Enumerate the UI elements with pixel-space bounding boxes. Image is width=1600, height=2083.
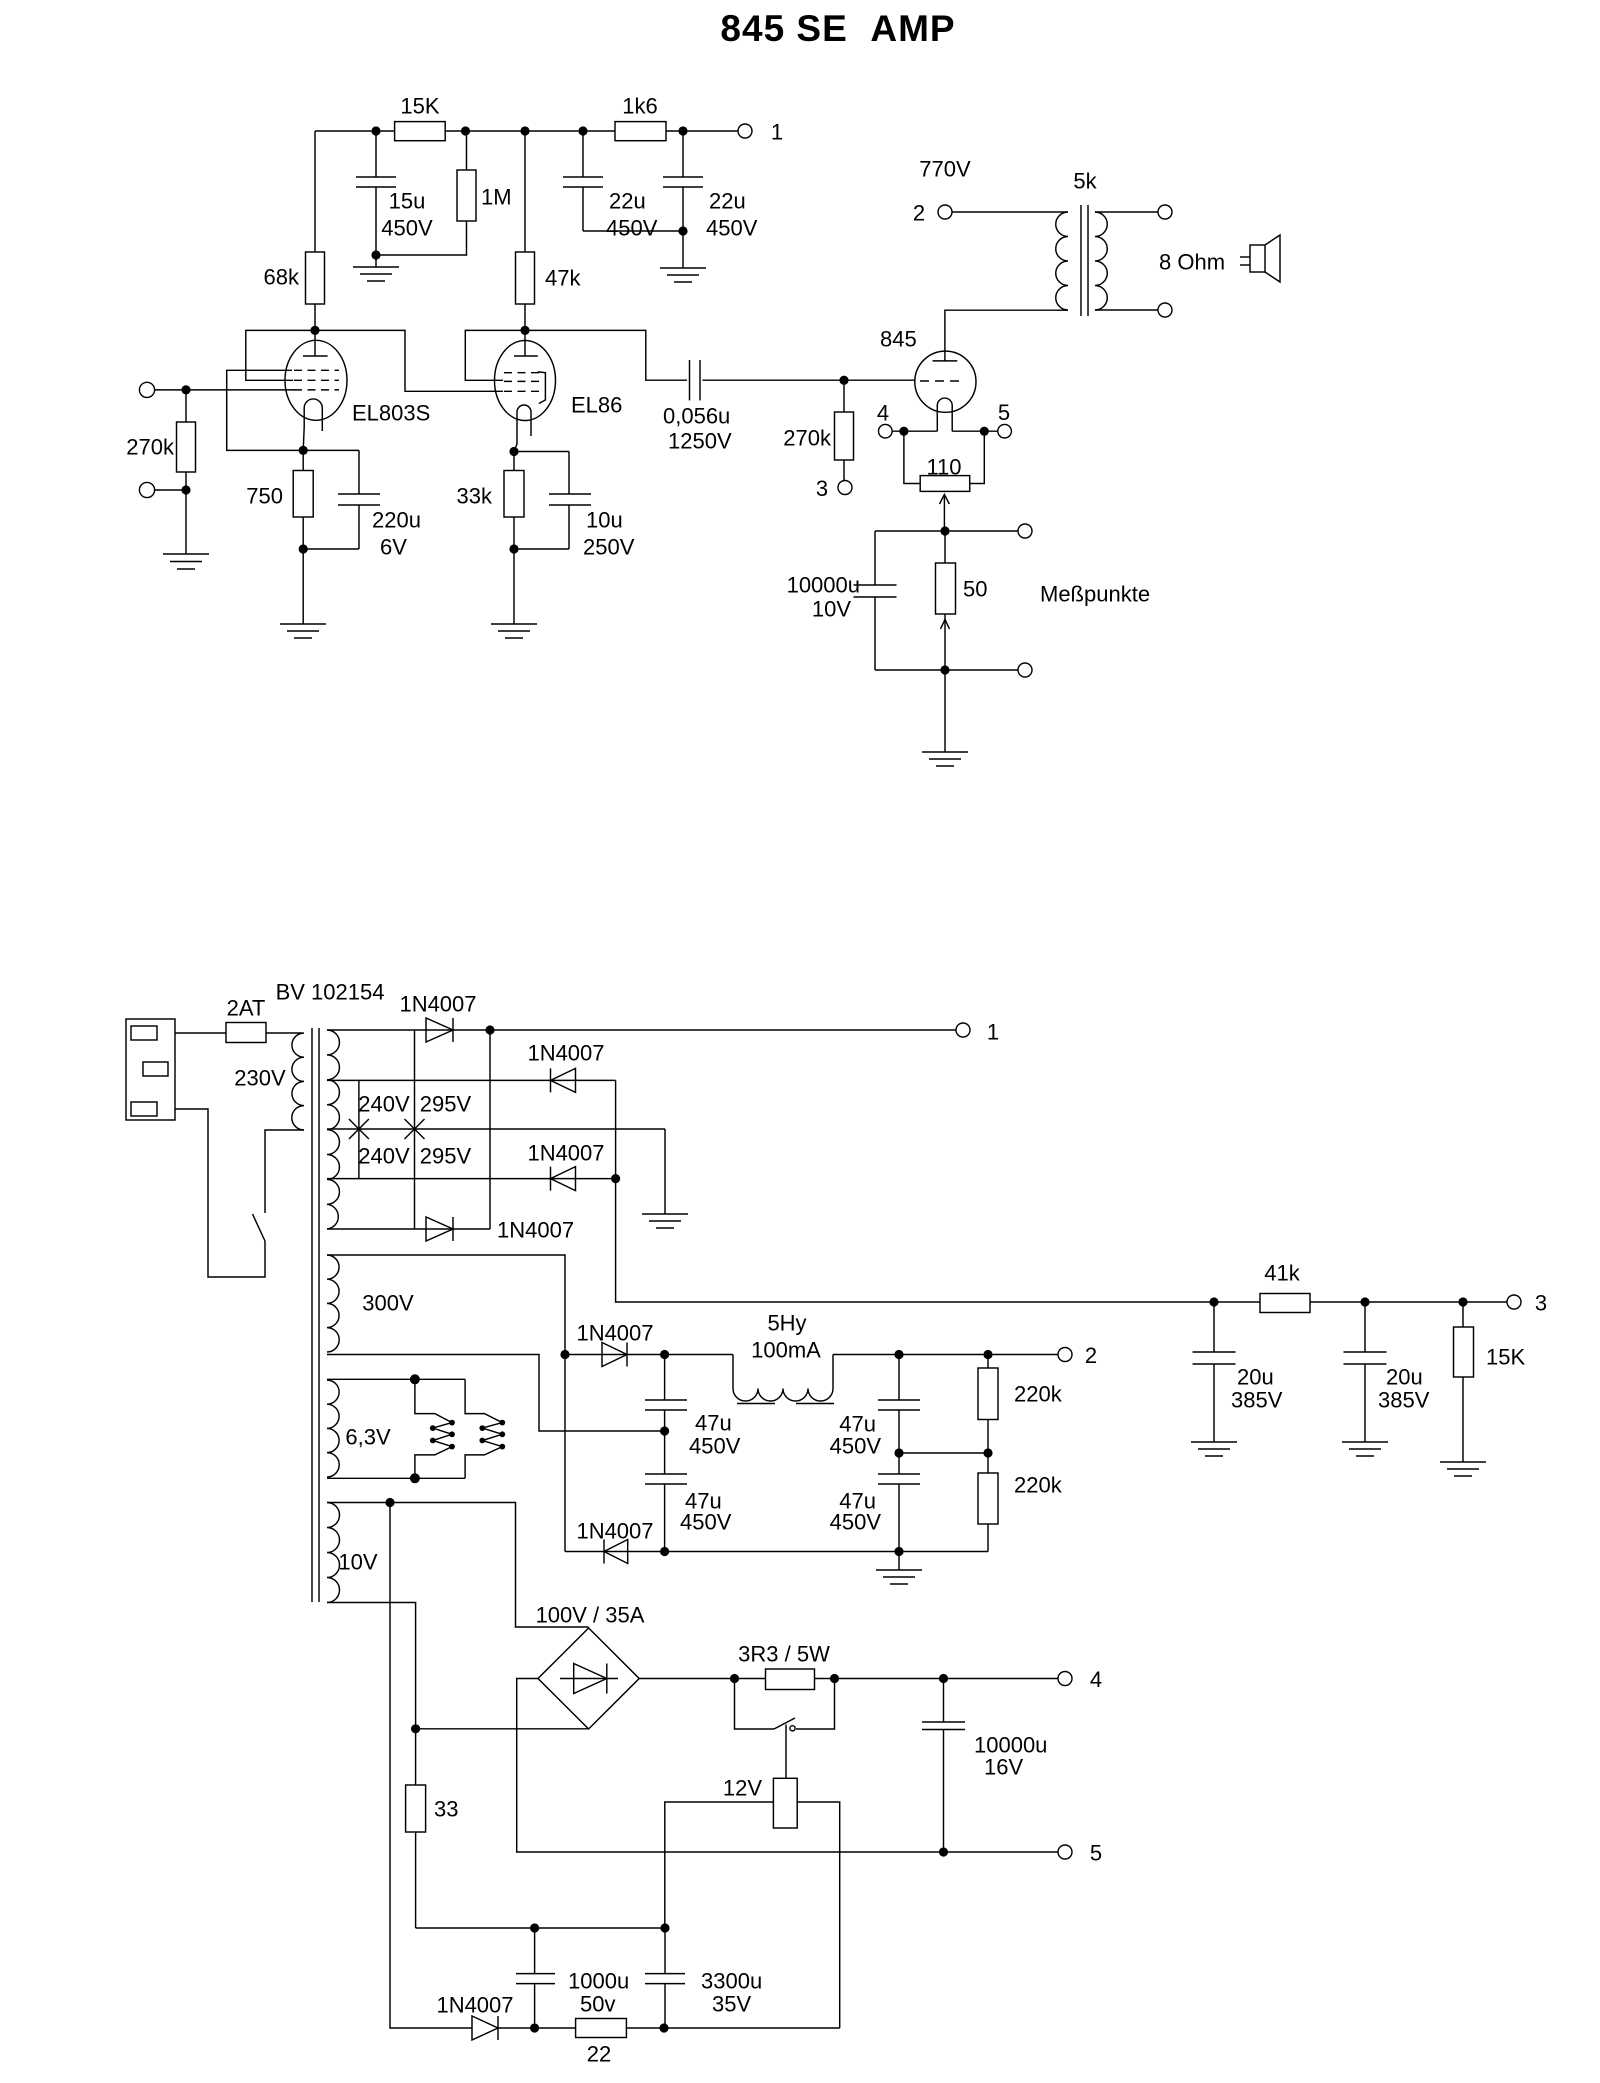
svg-text:450V: 450V [689, 1434, 741, 1459]
speaker icon [1250, 245, 1265, 272]
wire HV tap 240V lower [327, 1178, 616, 1180]
capacitor 47u 450V (1) [664, 1355, 666, 1401]
tube EL86 cathode [517, 405, 531, 444]
svg-text:250V: 250V [583, 535, 635, 560]
node 20u-2 [1360, 1297, 1369, 1306]
wire input to grid [155, 389, 295, 391]
tube EL86 grids (dashed) [504, 372, 539, 374]
ground HV center tap [664, 1129, 666, 1214]
wire negative rail down [616, 1179, 1260, 1302]
svg-text:12V: 12V [723, 1776, 762, 1801]
node rail-22u-b [678, 126, 687, 135]
svg-text:10000u: 10000u [787, 573, 860, 598]
node bridge AC2 [411, 1724, 420, 1733]
svg-text:5: 5 [998, 400, 1010, 425]
wire bridge minus to terminal 5 rail [517, 1679, 1058, 1853]
tube EL803S anode [314, 330, 316, 356]
svg-text:3300u: 3300u [701, 1969, 762, 1994]
svg-text:1N4007: 1N4007 [497, 1218, 574, 1243]
node 10000u top [939, 1674, 948, 1683]
node bottom rail / ground [894, 1547, 903, 1556]
svg-text:300V: 300V [362, 1291, 414, 1316]
tube 845 anode [933, 360, 958, 362]
node EL803S cathode [299, 446, 308, 455]
wire coupling cap to 845 grid [703, 379, 916, 381]
capacitor 20u 385V (2) [1364, 1302, 1366, 1352]
wire meas row bottom [875, 669, 1018, 671]
node 10V top / relay feed [385, 1498, 394, 1507]
resistor 41k [1260, 1294, 1310, 1313]
node D7 out [530, 2023, 539, 2032]
node doubler input [560, 1350, 569, 1359]
svg-text:47k: 47k [545, 266, 581, 291]
terminal 1 [738, 124, 752, 138]
diode 1N4007 D4 [426, 1217, 453, 1241]
tap cross mark left [349, 1119, 369, 1139]
svg-text:4: 4 [877, 401, 889, 426]
transformer 300V winding [327, 1255, 339, 1352]
svg-text:16V: 16V [984, 1755, 1023, 1780]
tube EL86 beam plate hook [538, 372, 546, 404]
svg-text:220k: 220k [1014, 1382, 1063, 1407]
svg-text:2AT: 2AT [227, 996, 266, 1021]
fuse 2AT [226, 1023, 266, 1043]
node input bottom [181, 485, 190, 494]
svg-text:22: 22 [587, 2042, 611, 2067]
svg-text:295V: 295V [420, 1144, 472, 1169]
ground EL803S cathode [280, 623, 326, 625]
resistor 270k grid-leak [843, 380, 845, 412]
resistor 47k [524, 131, 526, 252]
svg-text:1N4007: 1N4007 [576, 1321, 653, 1346]
wire relay coil left lead [665, 1802, 774, 1928]
terminal meas top [1018, 524, 1032, 538]
svg-text:450V: 450V [830, 1510, 882, 1535]
svg-text:100V / 35A: 100V / 35A [536, 1603, 645, 1628]
relay coil 12V [773, 1778, 797, 1828]
node rail-22u-a [578, 126, 587, 135]
svg-text:0,056u: 0,056u [663, 404, 730, 429]
node cathode return top [940, 526, 949, 535]
wire 22u pair bottom link [583, 230, 683, 232]
svg-text:15K: 15K [400, 94, 439, 119]
svg-text:22u: 22u [709, 189, 746, 214]
wire cathode to 220u [303, 449, 359, 451]
ground 22u [660, 267, 706, 269]
terminal 4 [879, 424, 893, 438]
capacitor 0,056u 1250V [689, 360, 691, 400]
wire HV bottom tap [327, 1228, 490, 1230]
svg-text:50: 50 [963, 577, 987, 602]
bridge rectifier 100V / 35A [538, 1628, 639, 1729]
wire 300V bottom tap [327, 1355, 665, 1432]
svg-text:6V: 6V [380, 535, 407, 560]
terminal speaker top [1158, 205, 1172, 219]
svg-text:1: 1 [987, 1020, 999, 1045]
capacitor 20u 385V (1) [1213, 1302, 1215, 1352]
node 15K top [1458, 1297, 1467, 1306]
wire 6,3V top tap [327, 1378, 465, 1380]
relay contact bypassing 3R3 [735, 1679, 775, 1730]
svg-text:1N4007: 1N4007 [527, 1041, 604, 1066]
diode 1N4007 D6 [604, 1540, 628, 1564]
wire B+ top rail [315, 130, 745, 132]
node filament left [899, 427, 908, 436]
terminal speaker bottom [1158, 303, 1172, 317]
node D6 [660, 1547, 669, 1556]
node doubler mid [660, 1426, 669, 1435]
svg-text:68k: 68k [264, 265, 300, 290]
node 220k mid [983, 1448, 992, 1457]
tap selector vertical 240V [358, 1080, 360, 1178]
node 1000u top [530, 1923, 539, 1932]
wiper arrow 110 [943, 496, 945, 531]
node heater bottom [410, 1473, 420, 1483]
svg-text:20u: 20u [1237, 1365, 1274, 1390]
wire EL803S g2 tie to anode [246, 330, 315, 380]
capacitor 22u 450V (first) [582, 131, 584, 177]
svg-text:295V: 295V [420, 1092, 472, 1117]
wire primary bottom to switch [265, 1130, 304, 1213]
svg-text:450V: 450V [830, 1434, 882, 1459]
resistor 50 (cathode sense) [944, 531, 946, 563]
svg-text:EL86: EL86 [571, 393, 622, 418]
heater filament group 1 [415, 1379, 452, 1478]
terminal 3 supply [1507, 1295, 1521, 1309]
svg-text:22u: 22u [609, 189, 646, 214]
svg-text:240V: 240V [358, 1144, 410, 1169]
transformer OT secondary winding [1095, 212, 1107, 310]
transformer 10V winding [327, 1503, 340, 1603]
node D5 output [660, 1350, 669, 1359]
potentiometer 110 (hum balance) [920, 476, 970, 492]
svg-text:100mA: 100mA [751, 1338, 821, 1363]
svg-text:15K: 15K [1486, 1345, 1525, 1370]
node EL86 anode [520, 326, 529, 335]
node 845 grid / 270k [839, 376, 848, 385]
node 15u bottom [371, 250, 380, 259]
node 3R3 right [830, 1674, 839, 1683]
node 20u-1 [1209, 1297, 1218, 1306]
svg-text:450V: 450V [606, 216, 658, 241]
wire doubler bottom branch [565, 1551, 988, 1553]
resistor 220k upper [987, 1355, 989, 1369]
capacitor 47u 450V (4) [878, 1473, 920, 1475]
node 3R3 left [730, 1674, 739, 1683]
svg-text:220k: 220k [1014, 1473, 1063, 1498]
wire OT secondary top [1095, 211, 1158, 213]
svg-text:3: 3 [1535, 1291, 1547, 1316]
resistor 3R3 / 5W [766, 1669, 815, 1690]
wire 10V top tap [327, 1503, 589, 1628]
diode 1N4007 D5 [602, 1343, 627, 1367]
resistor 33k [513, 452, 515, 471]
capacitor 1000u 50v [534, 1928, 536, 1974]
terminal 4 supply [1058, 1672, 1072, 1686]
terminal 3 (bias measuring point) [838, 481, 852, 495]
svg-text:1k6: 1k6 [622, 94, 657, 119]
diode 1N4007 D3 [551, 1167, 576, 1191]
svg-text:1N4007: 1N4007 [576, 1519, 653, 1544]
terminal meas bottom [1018, 663, 1032, 677]
svg-text:4: 4 [1090, 1667, 1102, 1692]
tube 845 grid (dashed) [920, 380, 963, 382]
node 22 right [659, 2023, 668, 2032]
node choke out / 47u [894, 1350, 903, 1359]
diode 1N4007 D1 [426, 1018, 453, 1042]
svg-text:270k: 270k [783, 426, 832, 451]
wire relay bottom rail [498, 2027, 576, 2029]
svg-text:1N4007: 1N4007 [399, 992, 476, 1017]
wire HV top tap [327, 1029, 956, 1031]
wire hum pot right leg [970, 431, 985, 483]
terminal 1 (B+ out) [956, 1023, 970, 1037]
wire AC2 to bridge bottom [416, 1728, 589, 1730]
svg-text:110: 110 [926, 455, 961, 480]
wire terminal 2 to OT primary [952, 211, 1068, 213]
resistor 33 [406, 1785, 426, 1832]
capacitor 10u 250V [568, 452, 570, 495]
tap cross mark right [405, 1119, 425, 1139]
ground 845 cathode [944, 670, 946, 752]
svg-text:230V: 230V [234, 1066, 286, 1091]
tube 845 envelope [915, 351, 976, 412]
wire doubler top branch [565, 1354, 733, 1356]
ground supply mid [898, 1552, 900, 1571]
node rail-1M [461, 126, 470, 135]
ground input [163, 553, 209, 555]
node D3 [611, 1174, 620, 1183]
tube EL803S grids (dashed) [294, 369, 339, 371]
svg-text:270k: 270k [126, 435, 175, 460]
wire EL803S g3 tie to cathode [227, 370, 304, 450]
wire HV tap 240V upper [327, 1079, 616, 1081]
resistor 15K bleeder [1462, 1302, 1464, 1327]
wire relay coil right lead [797, 1802, 840, 2028]
wire filament right to terminal 5 [952, 430, 998, 432]
wire bridge plus to 3R3 [639, 1678, 1058, 1680]
svg-text:10V: 10V [812, 597, 851, 622]
transformer core [311, 1028, 313, 1602]
wire HV center tap [327, 1128, 665, 1130]
heater filament group 2 [465, 1379, 502, 1478]
capacitor 22u 450V (second) [682, 131, 684, 177]
wire choke to terminal 2 [833, 1354, 1058, 1356]
resistor 22 [576, 2019, 627, 2038]
tap selector vertical 295V [414, 1030, 416, 1229]
svg-text:BV 102154: BV 102154 [276, 980, 385, 1005]
capacitor 47u 450V (3) [898, 1355, 900, 1401]
node 47u mid right [894, 1448, 903, 1457]
svg-text:33k: 33k [457, 484, 493, 509]
mains plug [126, 1019, 175, 1120]
node 22u link [678, 226, 687, 235]
wire rail left drop to 68k [314, 131, 316, 252]
wire 47u mid to 220k mid [899, 1452, 988, 1454]
tube EL86 anode [524, 330, 526, 356]
node rail-15u [371, 126, 380, 135]
tube EL803S cathode [304, 399, 322, 431]
resistor 750 [302, 450, 304, 470]
transformer mains primary winding 230V [292, 1033, 304, 1130]
wire EL86 anode to coupling cap [525, 330, 687, 380]
transformer HV secondary winding [327, 1030, 339, 1229]
node 220k top [983, 1350, 992, 1359]
svg-text:1N4007: 1N4007 [436, 1993, 513, 2018]
wire relay cap rail [416, 1927, 665, 1929]
node input top [181, 385, 190, 394]
svg-text:47u: 47u [695, 1411, 732, 1436]
ground 15u [375, 255, 377, 267]
svg-text:15u: 15u [389, 189, 426, 214]
svg-text:450V: 450V [706, 216, 758, 241]
svg-text:3R3 / 5W: 3R3 / 5W [738, 1642, 830, 1667]
svg-text:2: 2 [1085, 1343, 1097, 1368]
wire EL86 g2 tie to anode [465, 330, 525, 380]
svg-text:220u: 220u [372, 508, 421, 533]
wire OT secondary bottom [1095, 309, 1158, 311]
capacitor 10000u 10V [874, 531, 876, 585]
svg-text:5k: 5k [1073, 169, 1097, 194]
terminal input top [139, 382, 154, 397]
svg-text:EL803S: EL803S [352, 401, 430, 426]
diode 1N4007 D7 [472, 2016, 498, 2040]
svg-text:450V: 450V [680, 1510, 732, 1535]
terminal 2 supply [1058, 1348, 1072, 1362]
svg-text:5Hy: 5Hy [767, 1311, 806, 1336]
svg-text:385V: 385V [1378, 1388, 1430, 1413]
svg-text:Meßpunkte: Meßpunkte [1040, 582, 1150, 607]
resistor 1k6 [615, 122, 666, 141]
resistor 1M [466, 131, 468, 170]
capacitor 220u 6V [358, 450, 360, 494]
node EL803S anode [310, 326, 319, 335]
svg-text:33: 33 [434, 1797, 458, 1822]
choke 5Hy 100mA [733, 1355, 833, 1401]
resistor 15K [395, 122, 446, 141]
wire filament left to terminal 4 [892, 430, 937, 432]
node 33k bottom [509, 544, 518, 553]
terminal 5 [998, 424, 1012, 438]
terminal input bottom [139, 482, 154, 497]
diode 1N4007 D2 [551, 1068, 576, 1092]
svg-text:35V: 35V [712, 1992, 751, 2017]
svg-text:845: 845 [880, 327, 917, 352]
svg-text:41k: 41k [1264, 1261, 1300, 1286]
wire D2-D3 junction riser [615, 1080, 617, 1178]
relay actuation link [785, 1725, 787, 1779]
node D1 output [485, 1025, 494, 1034]
svg-text:50v: 50v [580, 1992, 615, 2017]
svg-text:8 Ohm: 8 Ohm [1159, 250, 1225, 275]
node 750 bottom [299, 544, 308, 553]
svg-text:2: 2 [913, 201, 925, 226]
svg-text:1M: 1M [481, 185, 512, 210]
transformer 6,3V winding [327, 1380, 339, 1477]
node EL86 cathode [509, 447, 518, 456]
wire 6,3V bottom tap [327, 1477, 465, 1479]
svg-text:770V: 770V [919, 157, 971, 182]
node cathode return bottom [940, 665, 949, 674]
tube 845 filament [937, 398, 952, 431]
capacitor 3300u 35V [664, 1928, 666, 1974]
svg-text:10V: 10V [338, 1550, 377, 1575]
capacitor 47u 450V (2) [645, 1473, 687, 1475]
wire 10V bottom tap [327, 1603, 416, 1786]
svg-text:5: 5 [1090, 1841, 1102, 1866]
resistor 220k lower [987, 1453, 989, 1473]
svg-text:1N4007: 1N4007 [527, 1141, 604, 1166]
wire D4 riser to D1 node [489, 1030, 491, 1229]
svg-text:3: 3 [816, 476, 828, 501]
wire hum pot left leg [904, 431, 920, 483]
wire EL803S anode to EL86 grid coupling [315, 330, 503, 391]
ground EL86 cathode [491, 623, 537, 625]
svg-text:750: 750 [246, 484, 283, 509]
resistor 270k input [185, 390, 187, 422]
svg-text:450V: 450V [381, 216, 433, 241]
tube EL803S envelope [285, 340, 347, 420]
svg-text:1250V: 1250V [668, 429, 732, 454]
wire 15u-1M bottom link [376, 221, 467, 255]
ground 20u-2 [1342, 1441, 1388, 1443]
wire plug live to fuse [175, 1032, 302, 1034]
tube EL86 envelope [495, 341, 556, 421]
transformer OT core [1080, 205, 1082, 316]
svg-text:1000u: 1000u [568, 1969, 629, 1994]
ground 15K [1440, 1461, 1486, 1463]
resistor 68k [306, 252, 325, 304]
terminal 5 supply [1058, 1845, 1072, 1859]
node 10000u bottom [939, 1847, 948, 1856]
svg-text:20u: 20u [1386, 1365, 1423, 1390]
capacitor 15u 450V [375, 131, 377, 177]
svg-text:240V: 240V [358, 1092, 410, 1117]
wire cathode to 10u [514, 451, 569, 453]
switch mains [253, 1214, 266, 1241]
svg-text:385V: 385V [1231, 1388, 1283, 1413]
svg-text:1: 1 [771, 120, 783, 145]
node rail-47k [520, 126, 529, 135]
svg-text:6,3V: 6,3V [345, 1425, 391, 1450]
node filament right [980, 427, 989, 436]
terminal 2 (845 anode supply) [938, 205, 952, 219]
svg-text:845 SE AMP: 845 SE AMP [720, 8, 955, 49]
wire 300V top tap [327, 1255, 565, 1552]
wire meas row top [875, 530, 1018, 532]
capacitor 10000u 16V [943, 1679, 945, 1723]
ground 20u-1 [1191, 1441, 1237, 1443]
transformer OT primary winding 5k [1056, 212, 1068, 310]
wire relay feed down [390, 1503, 472, 2029]
node 3300u top / coil [660, 1923, 669, 1932]
node heater top [410, 1374, 420, 1384]
svg-text:10u: 10u [586, 508, 623, 533]
